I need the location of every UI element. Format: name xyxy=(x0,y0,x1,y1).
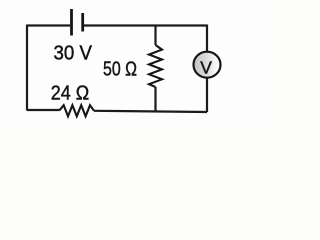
wire top-left segment xyxy=(27,24,70,26)
svg-text:50 Ω: 50 Ω xyxy=(103,58,137,80)
wire right side bottom (from voltmeter) xyxy=(206,78,208,113)
wire right side top (to voltmeter) xyxy=(206,25,208,53)
voltmeter V (circle) xyxy=(194,52,221,78)
wire top-right segment xyxy=(84,24,207,26)
svg-text:24 Ω: 24 Ω xyxy=(51,82,90,104)
svg-text:30 V: 30 V xyxy=(54,43,93,65)
resistor R1 50-ohm (vertical zigzag) xyxy=(149,45,162,87)
wire 50-ohm branch bottom xyxy=(154,87,156,111)
wire bottom-left segment xyxy=(27,109,60,111)
battery B1 30V left plate xyxy=(70,9,73,36)
svg-text:V: V xyxy=(200,58,212,78)
resistor R2 24-ohm (horizontal zigzag) xyxy=(60,105,95,116)
wire 50-ohm branch top xyxy=(154,26,156,46)
wire left side xyxy=(26,25,28,111)
battery B1 30V right plate xyxy=(81,13,84,32)
wire bottom-right segment xyxy=(94,111,207,112)
